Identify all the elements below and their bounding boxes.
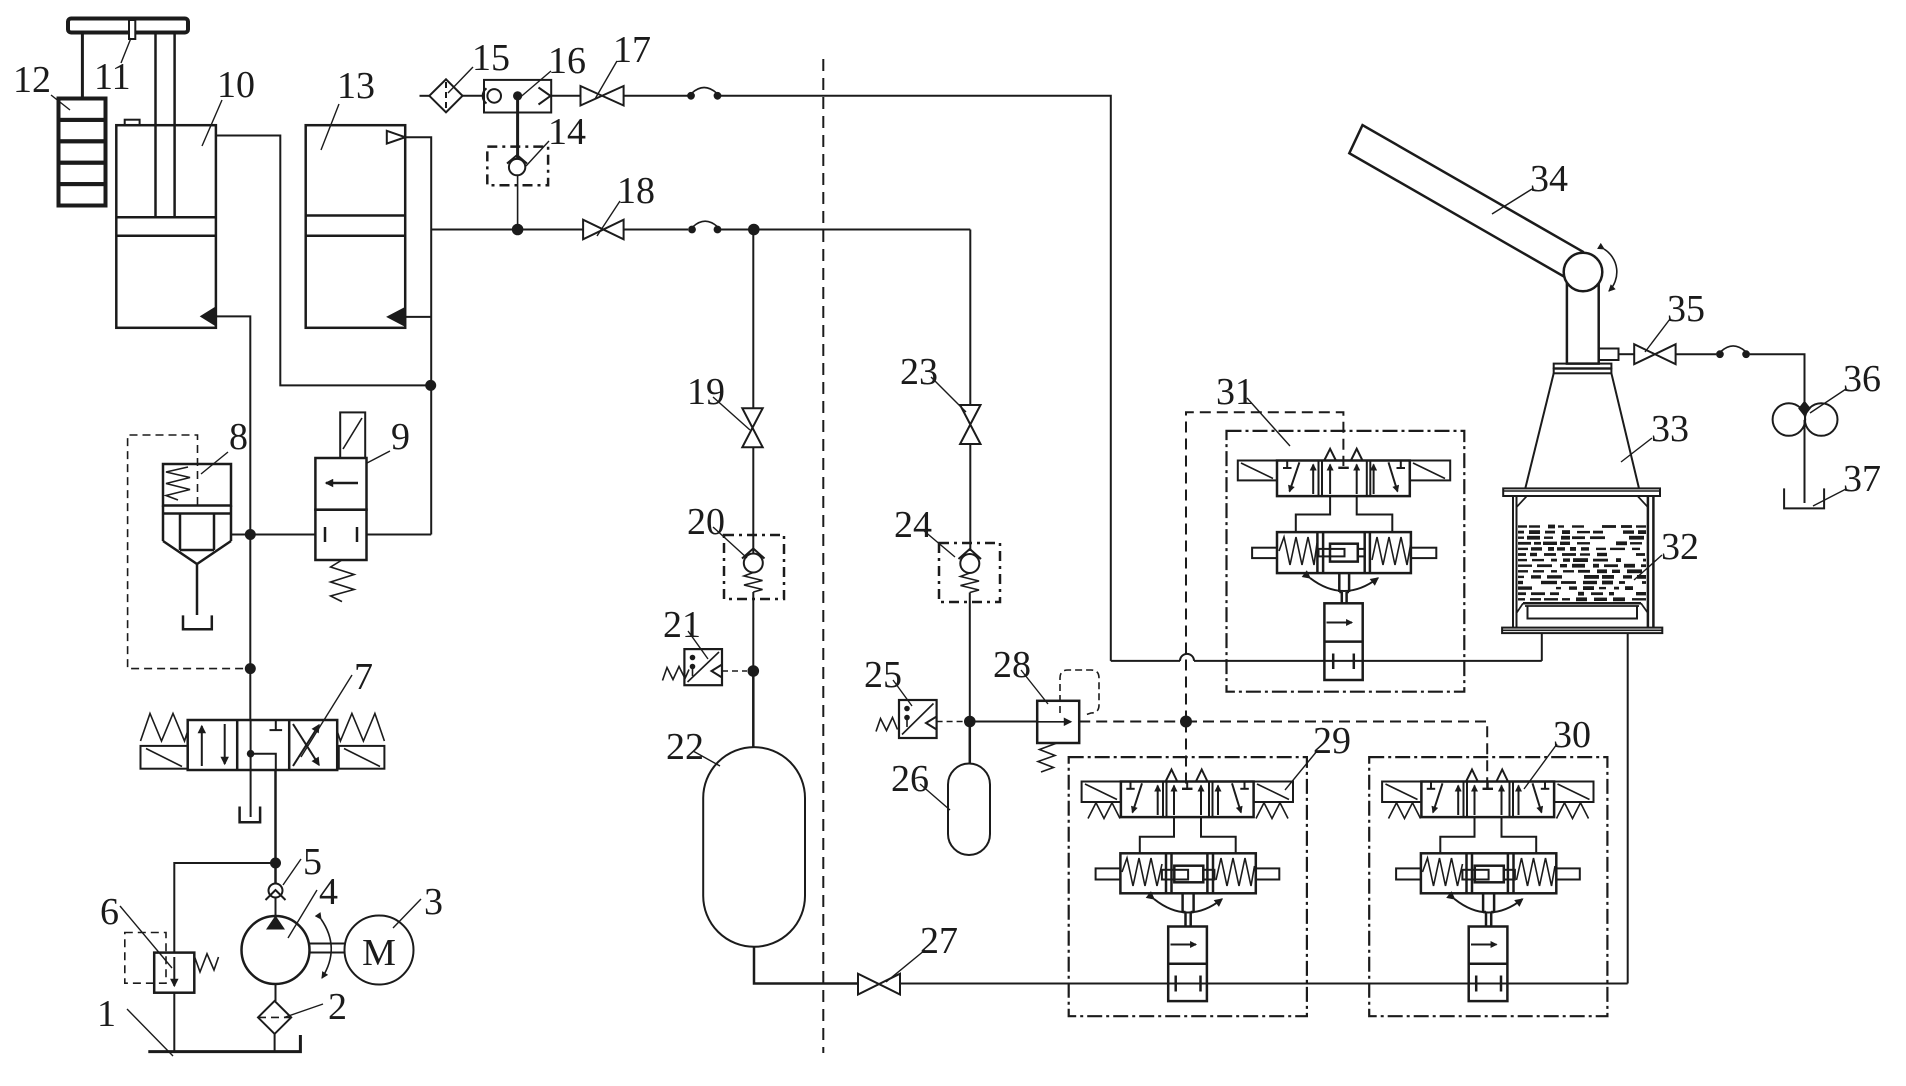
mast column xyxy=(1567,272,1599,364)
spring of valve 9 xyxy=(331,560,355,602)
wire coupling to right corner xyxy=(721,96,1111,661)
flange xyxy=(1554,364,1612,369)
check throttle unit 16 xyxy=(484,80,551,113)
grab unit 29 xyxy=(1069,757,1307,1016)
node A xyxy=(425,380,436,391)
tank 1 xyxy=(148,1035,300,1052)
swing arrow of 29 xyxy=(1154,899,1222,913)
right spring of valve 7 xyxy=(337,714,384,742)
outlet tab xyxy=(1599,349,1619,361)
port arrow of cylinder 13 xyxy=(386,307,405,327)
piloted check valve 24 xyxy=(939,543,1000,602)
wire main down to valve7 xyxy=(249,535,251,721)
wire cyl13 lower port to x431 xyxy=(405,316,431,318)
svg-text:18: 18 xyxy=(617,170,655,212)
wire vertical x431 down to valve9 xyxy=(430,230,432,535)
feedback mechanism of 31 xyxy=(1252,532,1436,573)
svg-text:8: 8 xyxy=(229,416,248,458)
wire valve8 to node B xyxy=(231,534,250,536)
node I xyxy=(1180,716,1192,728)
relief valve 6 xyxy=(154,953,194,993)
svg-text:7: 7 xyxy=(354,656,373,698)
wire 19 to check 20 xyxy=(752,447,754,553)
svg-text:9: 9 xyxy=(391,416,410,458)
filter 15 xyxy=(429,79,462,112)
svg-text:1: 1 xyxy=(97,993,116,1035)
bus riser to container xyxy=(1627,633,1629,983)
piston rod of cylinder 10 xyxy=(154,33,157,218)
wire 16 to valve 17 xyxy=(551,95,580,97)
filter 2 xyxy=(258,1001,291,1034)
enclosure dash-dot box 31 xyxy=(1227,431,1465,692)
wire 16 down to check 14 xyxy=(516,96,519,160)
wire 20 to node G xyxy=(752,592,754,671)
hose coupling c xyxy=(1716,350,1724,358)
wire pump to filter 2 xyxy=(275,984,277,1001)
needle valve 19 xyxy=(742,408,762,447)
svg-text:19: 19 xyxy=(687,371,725,413)
dashed link 21 to node G xyxy=(722,670,747,672)
wire node D to relief valve 6 xyxy=(174,863,275,953)
wire check5 to pump xyxy=(275,898,277,917)
spring of 25 xyxy=(876,718,898,732)
svg-text:35: 35 xyxy=(1667,288,1705,330)
drain tank of valve 7 xyxy=(240,807,261,823)
svg-text:5: 5 xyxy=(303,841,322,883)
svg-text:M: M xyxy=(362,932,396,974)
valve 7 center passage to drain xyxy=(250,720,252,807)
svg-text:36: 36 xyxy=(1843,358,1881,400)
pivot rotation arrow xyxy=(1604,249,1617,291)
solenoid valve 9 xyxy=(315,412,366,560)
node B xyxy=(245,529,256,540)
svg-text:25: 25 xyxy=(864,654,902,696)
wire tab to valve 35 xyxy=(1619,353,1635,355)
svg-text:22: 22 xyxy=(666,726,704,768)
svg-text:28: 28 xyxy=(993,644,1031,686)
pilot dashed box of relief valve 8 xyxy=(128,435,250,669)
hose coupling b xyxy=(688,226,696,234)
valve 7 cell arrows xyxy=(202,720,319,770)
tray inside container xyxy=(1517,603,1648,618)
container 32 walls xyxy=(1513,496,1653,628)
valve 29 cell symbols xyxy=(1126,770,1249,816)
wire coupling to node F and corner xyxy=(721,229,970,231)
swing arrow of 31 xyxy=(1310,578,1378,591)
svg-text:16: 16 xyxy=(548,40,586,82)
svg-text:27: 27 xyxy=(920,920,958,962)
wire filter2 to tank xyxy=(274,1034,276,1052)
tilt cylinder of 31 xyxy=(1324,603,1362,680)
wire cyl10 upper port to node A xyxy=(216,136,431,386)
left spring of valve 7 xyxy=(141,714,188,742)
svg-text:32: 32 xyxy=(1661,526,1699,568)
drain tank of valve 8 xyxy=(183,615,212,629)
beam (lever cross-beam) xyxy=(68,19,188,33)
motor 3 xyxy=(345,916,414,985)
svg-text:10: 10 xyxy=(217,64,255,106)
svg-text:23: 23 xyxy=(900,351,938,393)
pressure switch 21 xyxy=(684,649,722,685)
wire 36 to tank 37 xyxy=(1804,420,1806,503)
svg-text:15: 15 xyxy=(472,37,510,79)
pilot valve of 29 xyxy=(1082,782,1293,818)
feedback mechanism of 29 xyxy=(1096,853,1280,893)
svg-text:3: 3 xyxy=(424,881,443,923)
pivot of arm 34 xyxy=(1564,253,1603,292)
wire coupling to gauge 36 xyxy=(1750,354,1805,404)
cylinder 13 xyxy=(306,125,406,328)
wire 17 to coupling xyxy=(624,95,688,97)
wire node D to check valve 5 xyxy=(274,863,277,884)
riser to container bottom xyxy=(1541,633,1543,661)
liquid 32 xyxy=(1518,525,1646,602)
step links valve29 to mechanism xyxy=(1140,817,1174,853)
tank 37 xyxy=(1784,488,1824,508)
gauge pair 36 xyxy=(1773,403,1806,436)
step links valve31 to mechanism xyxy=(1296,496,1330,532)
svg-text:17: 17 xyxy=(613,29,651,71)
wire node H to regulator 28 xyxy=(970,721,1037,723)
metering cylinder of 29 xyxy=(1168,927,1207,1002)
svg-text:11: 11 xyxy=(94,56,131,98)
bus wire to tilt cylinder with jump xyxy=(1111,660,1180,662)
partition dashed line xyxy=(822,59,824,1053)
wire node F branch down to valve 23 xyxy=(969,230,971,406)
svg-text:6: 6 xyxy=(100,891,119,933)
svg-text:30: 30 xyxy=(1553,714,1591,756)
wire 18 to coupling xyxy=(624,229,688,231)
wire valve7 to pump xyxy=(274,770,277,863)
pilot dashed wire node I to valve 31 xyxy=(1186,412,1343,721)
pilot dashed wire node I to valve 29 xyxy=(1185,722,1187,791)
svg-text:34: 34 xyxy=(1530,158,1568,200)
pump 4 xyxy=(242,916,310,984)
wire node G to accumulator 22 xyxy=(752,671,755,748)
wire 14 to node E xyxy=(517,175,519,229)
pilot dashed box of valve 6 xyxy=(125,933,166,984)
junction diamond 36 xyxy=(1798,401,1811,417)
shutoff valve 27 xyxy=(858,974,900,995)
svg-text:2: 2 xyxy=(328,986,347,1028)
wire 24 to node H xyxy=(969,593,971,722)
wire node H to accumulator 26 xyxy=(969,722,972,765)
pilot valve of 31 xyxy=(1238,461,1450,497)
node G xyxy=(748,665,760,677)
spring of valve 6 xyxy=(194,954,218,972)
wire cyl13 vent to valve18 line xyxy=(405,137,431,229)
container 32 top plate xyxy=(1503,488,1660,496)
weight stack 12 xyxy=(59,99,106,206)
shutoff valve 35 xyxy=(1634,344,1675,364)
hanger wire xyxy=(81,33,84,99)
piloted check valve 20 xyxy=(724,535,784,599)
svg-text:13: 13 xyxy=(337,65,375,107)
container 32 bottom plate xyxy=(1502,628,1662,634)
wire node F down to valve 19 xyxy=(752,230,754,409)
wire valve6 to tank xyxy=(173,993,175,1052)
wire x431 to valve 18 xyxy=(431,229,583,231)
rotary shaft of 31 xyxy=(1339,573,1349,603)
vent triangle of cylinder 13 xyxy=(387,131,405,144)
svg-text:31: 31 xyxy=(1216,371,1254,413)
pressure switch 25 xyxy=(899,700,937,738)
valve 31 cell symbols xyxy=(1283,449,1405,494)
svg-text:12: 12 xyxy=(13,59,51,101)
grab unit 30 xyxy=(1369,757,1607,1016)
shaft rotation arrow xyxy=(321,919,331,978)
directional valve 7 xyxy=(141,720,385,770)
spring of 21 xyxy=(663,667,690,681)
spring of 28 xyxy=(1038,743,1057,772)
shutoff valve 17 xyxy=(581,86,624,106)
needle valve 23 xyxy=(960,405,980,444)
pilot dashed box of 28 xyxy=(1060,670,1099,715)
mechanism springs 31 xyxy=(1279,537,1317,565)
node H xyxy=(964,716,976,728)
rotary shaft of 29 xyxy=(1183,893,1194,926)
svg-text:14: 14 xyxy=(548,111,586,153)
mechanism springs 29 xyxy=(1122,858,1162,886)
wire 22 to bottom bus xyxy=(754,947,858,984)
wire node B to valve 9 xyxy=(250,534,315,536)
svg-text:29: 29 xyxy=(1313,720,1351,762)
port arrow of cylinder 10 xyxy=(200,306,217,327)
bottom bus wire xyxy=(900,983,1628,985)
pilot dashed wire node I to valve 30 xyxy=(1186,722,1487,791)
svg-text:26: 26 xyxy=(891,758,929,800)
funnel 33 xyxy=(1525,373,1553,488)
drive shaft xyxy=(310,943,346,945)
accumulator 22 xyxy=(703,747,805,947)
svg-text:24: 24 xyxy=(894,504,932,546)
node D xyxy=(270,858,281,869)
shutoff valve 18 xyxy=(583,220,624,240)
check valve 5 xyxy=(269,884,283,898)
dashed pilot wire 28 to node I xyxy=(1079,721,1186,723)
relief valve 8 xyxy=(163,464,231,615)
enclosure dash-dot box 29 xyxy=(1069,757,1307,1016)
check valve 14 xyxy=(487,147,548,186)
arm 34 xyxy=(1349,125,1582,280)
svg-text:20: 20 xyxy=(687,501,725,543)
wire filter15 to unit 16 xyxy=(463,95,485,97)
node E xyxy=(512,224,524,236)
dashed link 25 to node H xyxy=(937,721,963,723)
accumulator 26 xyxy=(948,764,990,856)
wire 35 to coupling xyxy=(1676,353,1716,355)
svg-text:37: 37 xyxy=(1843,458,1881,500)
svg-text:21: 21 xyxy=(663,604,701,646)
svg-text:33: 33 xyxy=(1651,408,1689,450)
wire stub to filter 15 xyxy=(420,95,430,97)
pressure regulator 28 xyxy=(1037,701,1079,743)
wire valve9 right to x431 xyxy=(367,534,432,536)
node F xyxy=(748,224,760,236)
pin 11 xyxy=(129,20,135,39)
node C xyxy=(245,663,256,674)
springs of valve 29 xyxy=(1088,803,1120,819)
wire cyl10 lower port down main xyxy=(217,316,251,534)
hose coupling a xyxy=(687,92,695,100)
cylinder 10 xyxy=(116,120,216,328)
wire 23 to check 24 xyxy=(969,444,971,551)
